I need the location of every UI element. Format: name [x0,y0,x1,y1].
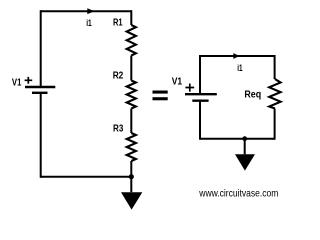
wire: between R1 and R2 [130,56,132,81]
wire: right circuit right side upper [274,55,276,79]
ground stub (left) [130,177,132,193]
wire: left circuit top [40,10,131,12]
wire: left circuit bottom [40,176,131,178]
svg-text:V1: V1 [12,77,22,88]
wire: right circuit bottom [200,138,275,140]
ground symbol (left) [121,192,142,209]
battery V1 (right): bottom plate [192,99,208,101]
svg-text:www.circuitvase.com: www.circuitvase.com [198,189,278,200]
svg-text:i1: i1 [86,18,92,28]
battery V1 (right): top plate [185,93,217,95]
wire: right column bottom segment [130,161,132,177]
wire: left circuit left side lower (battery to bottom) [40,94,42,178]
wire: right circuit left side lower (battery to bottom) [199,102,201,140]
resistor R2 [127,81,136,109]
svg-text:R3: R3 [113,124,124,135]
battery V1 (left): top plate [25,86,55,88]
svg-text:R2: R2 [113,71,124,82]
battery V1 (left): bottom plate [32,92,48,94]
current arrow i1 (left) [87,8,94,14]
resistor R3 [127,133,136,161]
resistor Req [269,79,280,109]
svg-text:Req: Req [244,90,261,101]
battery V1 (left): plus sign [25,77,33,84]
battery V1 (right): plus sign [185,84,194,92]
current arrow i1 (right) [233,53,239,59]
junction dot (left circuit) [129,174,134,179]
wire: right circuit left side upper (to battery) [199,55,201,93]
equals sign [153,91,168,94]
wire: right circuit top [200,55,275,57]
junction dot (right circuit) [242,136,247,141]
wire: left circuit left side upper (to battery) [40,10,42,86]
svg-text:V1: V1 [172,77,183,88]
svg-text:R1: R1 [113,18,123,29]
wire: right column top segment [130,10,132,25]
ground stub (right) [244,139,246,155]
wire: between R2 and R3 [130,109,132,134]
wire: right circuit right side lower [274,109,276,140]
ground symbol (right) [235,154,255,170]
resistor R1 [127,25,136,56]
svg-text:i1: i1 [237,63,242,73]
